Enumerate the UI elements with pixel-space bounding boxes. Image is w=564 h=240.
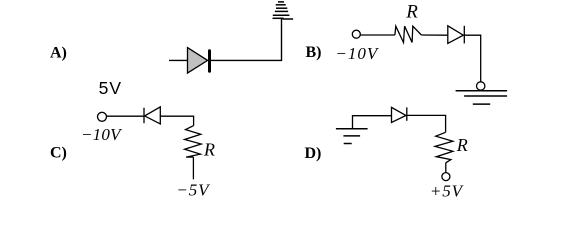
ground A (inverted earth) [273, 2, 294, 19]
resistor R (D, vertical) [435, 132, 453, 163]
diode D_C (points left) [144, 107, 160, 124]
wire resistor to diode B [421, 34, 447, 36]
wire diode C to corner [160, 116, 193, 125]
svg-text:5V: 5V [99, 78, 122, 98]
svg-text:R: R [405, 2, 418, 23]
svg-text:−5V: −5V [176, 180, 211, 199]
svg-text:D): D) [305, 145, 322, 162]
ground D [336, 129, 368, 144]
svg-text:−10V: −10V [81, 125, 123, 144]
resistor R (C, vertical) [185, 126, 202, 158]
wire cathode A to corner [211, 19, 282, 60]
svg-text:R: R [203, 140, 215, 160]
terminal node C [98, 112, 107, 121]
diode D_B [448, 26, 465, 44]
svg-text:+5V: +5V [430, 181, 465, 200]
wire ground D to diode [353, 116, 392, 129]
wire anode A [169, 59, 188, 61]
svg-text:−10V: −10V [335, 44, 379, 63]
resistor R (B) [395, 26, 422, 42]
svg-text:A): A) [50, 45, 67, 62]
wire diode B to ground corner [464, 35, 480, 82]
wire diode D to corner [407, 115, 446, 132]
wire resistor D to terminal [445, 163, 447, 173]
node circle B ground [477, 82, 485, 90]
ground B [456, 91, 508, 104]
svg-text:R: R [456, 135, 468, 155]
wire terminal to resistor B [360, 34, 395, 36]
wire terminal to diode C [107, 115, 144, 117]
wire resistor C down [192, 157, 194, 179]
svg-text:C): C) [50, 145, 67, 162]
diode D_D [392, 107, 407, 122]
terminal node D [442, 173, 450, 181]
diode D_A (gray filled) [188, 48, 210, 74]
svg-text:B): B) [306, 44, 322, 61]
terminal node B [352, 30, 360, 38]
